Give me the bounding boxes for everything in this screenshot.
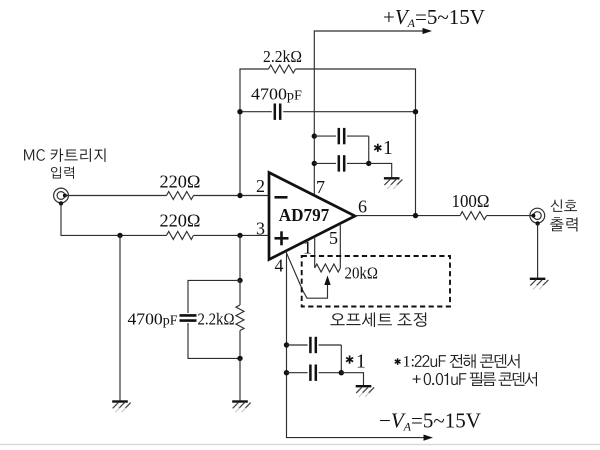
resistor 2.2k shunt xyxy=(239,280,241,305)
node bypass C2 tap xyxy=(312,161,317,166)
op-amp plus xyxy=(275,237,289,240)
capacitor bypass upper C2 xyxy=(314,162,336,164)
label *1 lower xyxy=(349,356,351,364)
svg-text:AD797: AD797 xyxy=(279,205,330,225)
capacitor bypass lower C3 xyxy=(287,344,308,346)
wire +V rail xyxy=(314,31,425,196)
node bypass C4 tap xyxy=(284,370,289,375)
svg-text:6: 6 xyxy=(358,197,367,217)
connector input RCA xyxy=(54,188,69,203)
op-amp minus xyxy=(275,196,288,199)
node output/feedback xyxy=(413,213,418,218)
label MC cartridge input (korean) xyxy=(24,148,105,162)
note line2 (korean) xyxy=(413,372,537,386)
connector output RCA xyxy=(530,208,545,223)
wire bypass lower right xyxy=(340,345,342,373)
ground left xyxy=(112,400,128,402)
wire output ground xyxy=(537,224,539,279)
wire pin4 rail xyxy=(287,251,426,437)
node bypass C3 tap xyxy=(284,342,289,347)
capacitor bypass lower C4 xyxy=(287,372,308,374)
svg-text:100Ω: 100Ω xyxy=(452,191,490,211)
wire input to pin2 xyxy=(65,195,167,197)
node pin3/network xyxy=(237,233,242,238)
capacitor bypass upper C1 xyxy=(314,135,336,137)
capacitor 4700pF feedback xyxy=(240,111,272,113)
svg-text:220Ω: 220Ω xyxy=(160,172,201,192)
ground bypass lower xyxy=(356,385,372,387)
svg-text:20kΩ: 20kΩ xyxy=(345,264,379,283)
label signal output (korean) xyxy=(551,199,577,212)
node pin2/feedback xyxy=(237,193,242,198)
svg-text:7: 7 xyxy=(316,177,325,197)
note line1 (korean) xyxy=(415,354,520,368)
node bypass upper junction xyxy=(366,161,371,166)
svg-text:4700pF: 4700pF xyxy=(128,310,179,329)
node feedback-cap left xyxy=(237,109,242,114)
ground output xyxy=(530,278,546,280)
node feedback-cap right xyxy=(413,109,418,114)
+V arrowhead xyxy=(423,28,433,34)
wire to ground left xyxy=(119,235,121,401)
node network top xyxy=(237,278,242,283)
label offset adjust (korean) xyxy=(330,312,426,327)
node gnd-branch xyxy=(117,233,122,238)
svg-text:1: 1 xyxy=(356,352,366,373)
svg-text:+VA=5~15V: +VA=5~15V xyxy=(383,5,485,30)
svg-text:1:: 1: xyxy=(403,354,415,371)
svg-text:1: 1 xyxy=(383,138,393,159)
potentiometer 20k xyxy=(315,264,341,272)
svg-text:1: 1 xyxy=(303,238,312,258)
node network bottom xyxy=(237,356,242,361)
wire pin3 node down xyxy=(239,235,241,280)
wire bypass right xyxy=(368,136,370,163)
svg-text:2: 2 xyxy=(256,176,265,196)
note *1 xyxy=(397,358,399,365)
pot wiper arrow xyxy=(287,253,328,298)
wire pot pin5 xyxy=(339,224,341,268)
resistor 220 top xyxy=(167,192,194,200)
op-amp U1 AD797 xyxy=(269,173,355,260)
wire to ground mid xyxy=(239,358,241,401)
svg-text:220Ω: 220Ω xyxy=(160,211,201,231)
svg-text:4700pF: 4700pF xyxy=(251,85,303,104)
svg-text:4: 4 xyxy=(275,256,284,276)
label *1 upper xyxy=(377,144,379,152)
node bypass lower junction xyxy=(339,370,344,375)
wire network left branch xyxy=(188,280,240,313)
svg-text:2.2kΩ: 2.2kΩ xyxy=(198,310,235,329)
capacitor 4700pF shunt (horizontal plates) xyxy=(180,314,197,317)
svg-text:−VA=5~15V: −VA=5~15V xyxy=(379,408,481,433)
node bypass C1 tap xyxy=(312,133,317,138)
svg-text:2.2kΩ: 2.2kΩ xyxy=(263,47,302,66)
wire feedback top branch xyxy=(240,69,269,196)
dashed offset box xyxy=(302,256,450,307)
ground mid xyxy=(232,400,248,402)
wire pot pin1 xyxy=(314,237,316,268)
svg-text:5: 5 xyxy=(329,228,338,248)
ground bypass upper xyxy=(384,177,400,179)
wire output xyxy=(355,215,460,217)
svg-text:3: 3 xyxy=(256,219,265,239)
resistor R feedback 2.2k xyxy=(269,65,296,73)
resistor 100 xyxy=(460,212,487,220)
resistor 220 bottom xyxy=(167,231,194,239)
-V arrowhead xyxy=(424,435,434,441)
wire input to pin3 xyxy=(61,203,167,235)
